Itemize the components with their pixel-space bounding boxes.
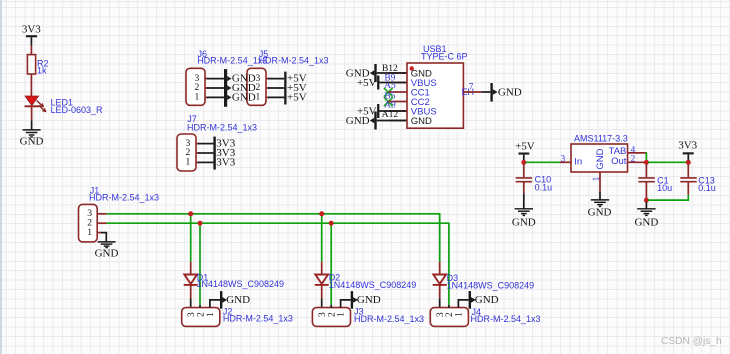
pin 1 GND (bottom): [592, 172, 602, 192]
connector J5: [247, 49, 329, 106]
svg-text:0.1u: 0.1u: [535, 183, 553, 193]
svg-text:AMS1117-3.3: AMS1117-3.3: [574, 134, 628, 144]
capacitor C1: [638, 164, 672, 199]
ground (LED1): [20, 130, 44, 148]
wire D2 to J3 pin3: [321, 299, 323, 308]
svg-text:GND: GND: [475, 294, 499, 306]
wire net row A (J1 pin3 bus): [107, 214, 440, 262]
wire J7 pin3: [196, 143, 213, 145]
wire J7 pin1: [196, 161, 213, 163]
pin 4 TAB: [628, 145, 647, 161]
regulator U2 AMS1117-3.3: [571, 134, 628, 172]
wire 3V3 to R2: [30, 45, 32, 54]
svg-text:1: 1: [336, 312, 347, 317]
svg-text:3V3: 3V3: [678, 139, 697, 151]
connector J2: [182, 306, 293, 326]
+5V flags at J5: [284, 72, 307, 105]
svg-text:1: 1: [186, 157, 191, 168]
wire J6 pin2: [205, 87, 224, 89]
svg-text:CSDN @js_h: CSDN @js_h: [661, 336, 722, 347]
wire J5 pin2: [266, 87, 284, 89]
capacitor C10: [516, 164, 552, 194]
svg-text:3V3: 3V3: [216, 156, 235, 168]
wire R2 to LED1: [30, 74, 32, 96]
capacitor C13: [680, 164, 716, 195]
svg-text:GND: GND: [357, 294, 381, 306]
diode D2: [315, 262, 417, 299]
ground (C10): [512, 209, 536, 229]
svg-text:2: 2: [631, 155, 636, 165]
wire J1 pin1 to GND: [101, 233, 106, 242]
svg-text:LED-0603_R: LED-0603_R: [51, 105, 104, 115]
connector J6: [186, 49, 267, 106]
connector J1: [79, 185, 160, 242]
LED LED1: [25, 96, 104, 115]
node junction row B / J3: [329, 221, 334, 226]
pin stub J4 pin2: [448, 305, 450, 308]
wire net row B (J1 pin2 bus): [107, 223, 449, 305]
GND flag at J3: [351, 291, 381, 309]
GND flag at J2: [220, 291, 250, 309]
wire +5V to In: [526, 161, 560, 163]
svg-text:+5V: +5V: [287, 91, 307, 103]
connector J7: [177, 114, 257, 171]
svg-text:+5V: +5V: [357, 77, 377, 89]
ground (AMS1117): [588, 200, 612, 219]
svg-text:3: 3: [561, 154, 566, 164]
node C1 bottom junction: [644, 198, 649, 203]
no-connect X on B5: [384, 97, 393, 106]
wire J7 pin2: [196, 152, 213, 154]
wire C1 bottom to C13 bottom: [648, 195, 688, 200]
+5V flag at USB B9: [357, 76, 406, 90]
svg-text:HDR-M-2.54_1x3: HDR-M-2.54_1x3: [471, 314, 541, 324]
svg-text:1k: 1k: [37, 66, 47, 76]
svg-text:GND: GND: [588, 206, 612, 218]
pin B12: [382, 64, 407, 74]
svg-text:HDR-M-2.54_1x3: HDR-M-2.54_1x3: [259, 56, 329, 66]
svg-text:+5V: +5V: [515, 140, 535, 152]
svg-text:1N4148WS_C908249: 1N4148WS_C908249: [197, 279, 285, 289]
wire drop to J3 pin2: [330, 223, 332, 305]
pin stub J1 pin1: [97, 232, 101, 234]
connector J3: [312, 307, 424, 327]
svg-text:HDR-M-2.54_1x3: HDR-M-2.54_1x3: [197, 56, 267, 66]
svg-text:1N4148WS_C908249: 1N4148WS_C908249: [447, 280, 535, 290]
svg-text:GND: GND: [346, 115, 370, 127]
pin A5: [384, 81, 407, 92]
GND flag at USB A12: [346, 112, 406, 130]
pin A12: [382, 110, 407, 121]
svg-text:1: 1: [87, 227, 92, 238]
node junction row B / J2: [198, 221, 203, 226]
svg-text:HDR-M-2.54_1x3: HDR-M-2.54_1x3: [354, 314, 424, 324]
node 3V3 junction: [686, 160, 691, 165]
svg-text:Out: Out: [611, 156, 627, 167]
svg-text:1: 1: [205, 312, 216, 317]
wire J6 pin1: [205, 96, 224, 98]
GND flag at USB B12: [346, 64, 406, 82]
svg-text:0.1u: 0.1u: [698, 183, 716, 193]
GND flags at J6: [224, 69, 256, 107]
diode D1: [184, 262, 284, 299]
wire Out to 3V3: [648, 161, 687, 163]
pin B5: [384, 91, 407, 101]
svg-text:1: 1: [592, 176, 602, 181]
svg-text:7: 7: [469, 83, 474, 93]
pin 2 Out: [628, 155, 647, 165]
node +5V junction: [521, 160, 526, 165]
pin stub J2 pin2: [199, 305, 201, 308]
resistor R2: [27, 55, 48, 76]
svg-text:GND: GND: [595, 148, 606, 169]
pin stub J1 pin3: [97, 213, 107, 215]
power flag 3V3 (top-left): [22, 23, 41, 45]
wire J3 pin1 to GND flag: [341, 300, 351, 308]
svg-text:HDR-M-2.54_1x3: HDR-M-2.54_1x3: [89, 193, 159, 203]
svg-text:TYPE-C 6P: TYPE-C 6P: [421, 52, 468, 62]
GND flag at EH: [490, 83, 521, 102]
connector J4: [430, 307, 540, 326]
no-connect X on A5: [384, 88, 393, 97]
svg-text:GND: GND: [634, 217, 658, 229]
node junction row A / D1: [188, 211, 193, 216]
wire J5 pin1: [266, 96, 284, 98]
svg-text:3V3: 3V3: [22, 23, 41, 35]
left edge strip: [0, 0, 2, 354]
pin stub J3 pin2: [330, 305, 332, 308]
pin 3 In: [560, 154, 571, 164]
wire C1 to GND: [645, 202, 647, 209]
diode D3: [433, 262, 534, 299]
svg-text:In: In: [574, 156, 582, 167]
wire J2 pin1 to GND flag: [210, 300, 220, 308]
wire D1 to J2 pin3: [190, 299, 192, 308]
ground (C1): [634, 209, 658, 229]
svg-text:1: 1: [454, 312, 465, 317]
svg-text:GND: GND: [226, 294, 250, 306]
wire J4 pin1 to GND flag: [458, 300, 468, 308]
svg-text:GND: GND: [232, 91, 256, 103]
wire drop to D1: [190, 214, 192, 262]
USB connector USB1: [407, 44, 474, 128]
node junction row A / D2: [319, 211, 324, 216]
ground (J1): [95, 242, 119, 259]
power flag +5V (AMS input): [515, 140, 535, 160]
svg-text:1N4148WS_C908249: 1N4148WS_C908249: [329, 280, 417, 290]
wire AMS GND pin down: [599, 192, 601, 200]
wire C10 to GND: [523, 194, 525, 209]
wire LED1 to GND: [31, 107, 33, 129]
wire D3 to J4 pin3: [439, 299, 441, 308]
node Out junction: [644, 160, 649, 165]
power flag 3V3 (right): [678, 139, 697, 160]
svg-text:1: 1: [195, 92, 200, 103]
svg-text:GND: GND: [20, 136, 44, 148]
svg-text:1: 1: [256, 92, 261, 103]
wire EH to GND: [481, 91, 490, 93]
pin stub J1 pin2: [97, 222, 107, 224]
+5V flag at USB A9: [357, 104, 406, 118]
svg-text:HDR-M-2.54_1x3: HDR-M-2.54_1x3: [223, 313, 293, 323]
wire drop to J2 pin2: [199, 223, 201, 305]
GND flag at J4: [469, 291, 499, 309]
svg-text:GND: GND: [95, 247, 119, 259]
svg-text:HDR-M-2.54_1x3: HDR-M-2.54_1x3: [187, 123, 257, 133]
pin 7 EH: [463, 83, 481, 93]
wire J6 pin3: [205, 78, 224, 80]
svg-text:GND: GND: [498, 87, 522, 99]
pin B9: [384, 74, 407, 84]
wire drop to D2: [321, 214, 323, 262]
wire J5 pin3: [266, 78, 284, 80]
svg-text:10u: 10u: [657, 183, 672, 193]
3V3 flags at J7: [213, 137, 235, 170]
pin A9: [384, 100, 407, 111]
svg-text:GND: GND: [512, 217, 536, 229]
svg-text:GND: GND: [411, 116, 432, 127]
